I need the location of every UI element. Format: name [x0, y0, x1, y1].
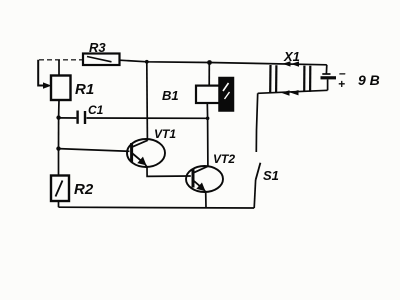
connector X1 contact bars [270, 65, 310, 93]
microphone B1 [196, 63, 234, 112]
node junction at VT1 collector / top rail [145, 60, 149, 64]
svg-text:R3: R3 [89, 40, 106, 55]
wire X1 bottom / battery minus lead [258, 90, 328, 93]
svg-text:X1: X1 [283, 49, 300, 64]
switch S1 blade [256, 163, 261, 180]
connector X1 arrows bottom [282, 90, 299, 96]
wire from C1 right plate to B1 line [87, 117, 208, 119]
svg-text:S1: S1 [263, 168, 279, 183]
battery GB1 top lead [325, 65, 327, 74]
wire top rail left of R3 [39, 59, 83, 61]
connector X1 arrows top [283, 61, 300, 67]
svg-text:VT1: VT1 [154, 127, 176, 141]
wire S1 to bottom rail [254, 180, 255, 208]
wiper arrowhead of R1 [43, 82, 52, 88]
battery GB1 plates [321, 74, 337, 78]
wire VT1 collector [146, 62, 149, 141]
transistor VT1 [127, 139, 165, 167]
svg-text:9 В: 9 В [358, 72, 380, 88]
node junction at C1 tap [56, 115, 60, 119]
resistor R3 [83, 54, 120, 66]
wire top rail from R3 to battery [120, 60, 327, 65]
node junction at VT1 base tap [56, 146, 60, 150]
wire X1 to switch S1 [256, 93, 257, 152]
wire R1 top lead [58, 60, 60, 76]
wire VT2 emitter to bottom rail [204, 190, 206, 208]
svg-text:B1: B1 [162, 88, 179, 103]
transistor VT2 [186, 166, 223, 192]
node junction C1 wire / B1 line [206, 117, 210, 121]
svg-text:+: + [338, 77, 345, 91]
wire VT1 base [59, 149, 130, 152]
wire R1 bottom lead to C1 node [58, 100, 60, 118]
wire B1 bottom to VT2 collector [206, 103, 209, 166]
svg-text:C1: C1 [88, 103, 104, 117]
svg-text:R1: R1 [75, 81, 94, 98]
svg-text:VT2: VT2 [213, 152, 235, 166]
wire down to R2 [58, 149, 60, 176]
resistor R1 (variable) [51, 76, 71, 101]
svg-text:R2: R2 [74, 181, 94, 198]
wire left branch to R1 wiper [38, 60, 45, 86]
battery GB1 bottom lead [327, 79, 329, 90]
wire VT1 emitter to VT2 base [145, 164, 191, 177]
wire bottom rail [59, 206, 255, 209]
wire from node to C1 left plate [59, 117, 77, 119]
node junction at B1 / top rail [207, 60, 212, 65]
wire R2 bottom lead [58, 201, 60, 207]
resistor R2 [51, 176, 69, 202]
capacitor C1 [78, 111, 85, 125]
wire down to base node [58, 118, 60, 149]
